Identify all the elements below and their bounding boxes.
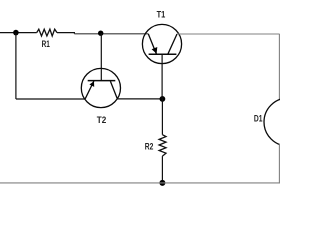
wire T1 collector to right edge — [177, 33, 279, 35]
wire T2 base lead — [100, 33, 102, 80]
transistor T2 emitter diagonal — [85, 81, 94, 99]
transistor T1 base bar — [149, 53, 177, 55]
junction dot mid node — [160, 96, 166, 102]
wire left rail to T2 emitter — [16, 98, 85, 100]
wire bottom rail — [0, 182, 280, 184]
node dot top-left — [13, 30, 19, 36]
transistor T1 emitter arrow — [152, 47, 158, 54]
transistor T2 emitter arrow — [89, 81, 94, 87]
svg-text:T2: T2 — [97, 115, 107, 126]
svg-text:D1: D1 — [254, 114, 263, 125]
wire D1 bottom to bottom rail — [278, 144, 280, 183]
resistor R1 — [37, 29, 57, 36]
wire top-left horizontal segment — [0, 32, 37, 34]
resistor R2 — [159, 135, 166, 156]
junction dot T2 base node — [98, 31, 103, 36]
junction dot bottom node — [159, 180, 165, 186]
wire right edge down to D1 top — [278, 34, 280, 100]
transistor T1 collector diagonal — [168, 34, 177, 54]
wire T2 collector to node — [117, 98, 162, 100]
wire step to T1 emitter — [74, 33, 148, 35]
transistor T2 collector diagonal — [110, 81, 117, 99]
svg-text:R2: R2 — [145, 142, 154, 153]
transistor T1 emitter diagonal — [148, 34, 156, 54]
svg-text:R1: R1 — [42, 39, 51, 50]
transistor T2 circle — [81, 68, 120, 107]
transistor T2 base bar — [88, 80, 116, 82]
svg-text:T1: T1 — [157, 10, 166, 21]
wire R1 to step — [57, 33, 74, 34]
transistor T1 circle — [142, 24, 181, 63]
lamp D1 circle — [264, 98, 312, 146]
wire node to R2 — [161, 99, 163, 135]
wire R2 to bottom rail — [161, 156, 163, 183]
wire left rail vertical — [15, 33, 17, 99]
wire T1 base lead to node — [161, 54, 163, 99]
